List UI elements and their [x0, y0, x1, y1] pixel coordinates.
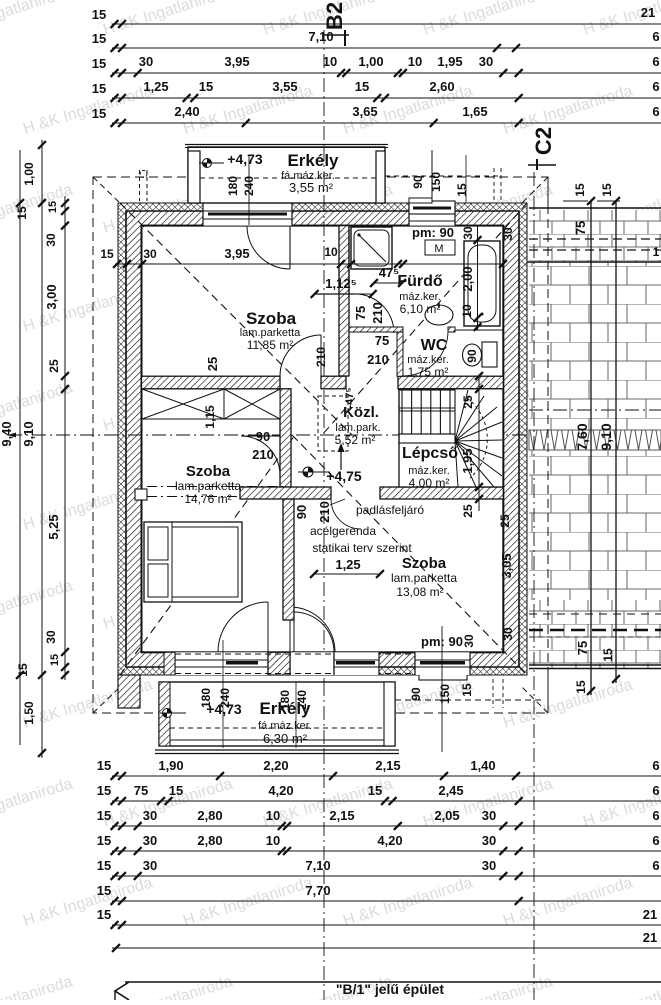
svg-text:pm: 90: pm: 90	[412, 225, 454, 240]
svg-text:10: 10	[266, 808, 280, 823]
svg-text:Szoba: Szoba	[246, 309, 297, 328]
svg-text:1,15: 1,15	[203, 405, 217, 429]
svg-text:6: 6	[652, 29, 659, 44]
svg-text:240: 240	[218, 688, 232, 708]
svg-text:6: 6	[652, 54, 659, 69]
brick vertical dim line 7,60	[590, 201, 592, 695]
svg-text:30: 30	[44, 233, 58, 247]
svg-text:25: 25	[205, 357, 220, 371]
section line C2 vertical dash-dot	[533, 172, 535, 1000]
bathtub	[464, 241, 500, 326]
svg-text:15: 15	[97, 808, 111, 823]
eaves corner stub TL	[93, 177, 120, 203]
svg-text:4,20: 4,20	[268, 783, 293, 798]
svg-text:2,15: 2,15	[375, 758, 400, 773]
WC left wall	[397, 332, 403, 376]
title block top line	[125, 981, 661, 983]
exterior wall insulation ring	[118, 203, 527, 675]
bottom row6	[515, 897, 523, 905]
svg-text:"B/1" jelű épület: "B/1" jelű épület	[336, 981, 445, 997]
roof hip TL dashed	[120, 203, 352, 435]
section line B2 vertical dash-dot	[323, 30, 325, 1000]
svg-text:5,25: 5,25	[46, 514, 61, 539]
small pier at window W3 left	[164, 652, 175, 675]
bottom wall window W4	[334, 652, 379, 675]
bottom dimension block	[112, 775, 661, 777]
svg-text:6,10 m²: 6,10 m²	[400, 302, 441, 316]
bottom balcony Erkély	[155, 682, 399, 754]
WC door arc	[403, 331, 448, 376]
svg-text:15: 15	[92, 7, 106, 22]
stairs Lépcső	[399, 389, 503, 487]
svg-text:75: 75	[375, 333, 389, 348]
bottom row2	[157, 797, 165, 805]
svg-text:210: 210	[370, 302, 385, 324]
wardrobe boxes	[142, 389, 280, 419]
ridge center line horizontal dash-dot	[8, 434, 527, 436]
door arc into Szoba 13,08 from balcony	[290, 607, 335, 652]
bottom wall door opening D1	[290, 652, 334, 675]
svg-text:90: 90	[294, 505, 309, 519]
svg-text:90: 90	[256, 429, 270, 444]
svg-text:15: 15	[92, 81, 106, 96]
svg-text:15: 15	[15, 206, 29, 220]
brick roof area	[529, 210, 661, 262]
svg-text:C2: C2	[531, 127, 556, 155]
svg-text:30: 30	[139, 54, 153, 69]
svg-text:10: 10	[460, 304, 474, 318]
svg-text:7,10: 7,10	[305, 858, 330, 873]
svg-text:4,20: 4,20	[377, 833, 402, 848]
wall H2 below Közl	[240, 487, 331, 499]
roof hip TR dashed	[322, 203, 527, 435]
top-left dashed pier	[139, 170, 141, 201]
top dimension block	[112, 23, 661, 25]
svg-text:statikai terv szerint: statikai terv szerint	[312, 541, 412, 555]
svg-text:Lépcső: Lépcső	[402, 445, 458, 462]
svg-text:21: 21	[641, 5, 655, 20]
svg-text:210: 210	[367, 352, 389, 367]
top dim row4	[183, 94, 191, 102]
svg-text:15: 15	[460, 683, 474, 697]
svg-text:30: 30	[143, 247, 157, 261]
svg-text:30: 30	[501, 627, 515, 641]
svg-text:3,95: 3,95	[224, 246, 249, 261]
svg-text:180: 180	[226, 176, 240, 196]
svg-text:25: 25	[47, 359, 61, 373]
svg-text:30: 30	[143, 808, 157, 823]
svg-text:25: 25	[498, 514, 512, 528]
bed	[144, 522, 242, 602]
svg-text:30: 30	[462, 634, 476, 648]
svg-text:9,10: 9,10	[21, 421, 36, 446]
interior wall V1 Szoba right	[339, 226, 349, 376]
steel beam acélgerenda	[135, 489, 147, 500]
svg-text:14,76 m²: 14,76 m²	[184, 492, 231, 506]
svg-text:7,60: 7,60	[574, 423, 590, 450]
door arc into Szoba 14,76	[218, 602, 268, 652]
window W1 door leaf and swing arc	[289, 226, 291, 269]
svg-text:30: 30	[479, 54, 493, 69]
svg-text:25: 25	[461, 504, 475, 518]
svg-text:180: 180	[278, 690, 292, 710]
eaves dashed rectangle	[93, 177, 548, 713]
svg-text:15: 15	[97, 883, 111, 898]
brick area boundary lines	[529, 207, 661, 209]
bottom wall pier between doors	[268, 652, 290, 675]
fürdő wall V2 right face line	[348, 226, 350, 294]
eaves dashed right edge over bricks	[547, 177, 549, 713]
svg-text:15: 15	[355, 79, 369, 94]
level marker Közl +4,75	[298, 467, 330, 477]
section line overlays across balconies	[323, 147, 325, 203]
left dim chain mid 9,10	[41, 140, 43, 758]
bottom row4	[134, 847, 142, 855]
svg-text:lam.parketta: lam.parketta	[391, 571, 457, 585]
eaves corner stub BR	[521, 686, 548, 713]
svg-text:6: 6	[652, 783, 659, 798]
svg-text:WC: WC	[421, 337, 448, 354]
WC toilet	[482, 342, 497, 367]
svg-text:7,10: 7,10	[308, 29, 333, 44]
svg-text:75: 75	[573, 221, 588, 235]
stair winders fan	[455, 390, 502, 487]
svg-text:1,75 m²: 1,75 m²	[408, 365, 449, 379]
svg-text:15: 15	[601, 648, 615, 662]
svg-text:21: 21	[643, 907, 657, 922]
svg-text:2,40: 2,40	[174, 104, 199, 119]
svg-text:6: 6	[652, 79, 659, 94]
svg-text:1,90: 1,90	[158, 758, 183, 773]
svg-text:15: 15	[169, 783, 183, 798]
svg-text:15: 15	[368, 783, 382, 798]
svg-text:6,30 m²: 6,30 m²	[263, 731, 308, 746]
level marker +4,73 bottom	[160, 709, 186, 718]
svg-text:2,45: 2,45	[438, 783, 463, 798]
svg-text:15: 15	[97, 833, 111, 848]
bottom wall window W3	[175, 652, 268, 675]
svg-text:2,15: 2,15	[329, 808, 354, 823]
svg-text:6: 6	[652, 808, 659, 823]
eaves corner stub TR	[521, 177, 548, 204]
level marker +4,73 top	[199, 159, 224, 168]
svg-text:30: 30	[501, 227, 515, 241]
svg-text:30: 30	[482, 858, 496, 873]
svg-text:13,08 m²: 13,08 m²	[396, 585, 443, 599]
svg-text:240: 240	[295, 690, 309, 710]
svg-text:10: 10	[323, 54, 337, 69]
svg-text:lam.parketta: lam.parketta	[175, 479, 241, 493]
brick area dashed bands	[529, 238, 661, 240]
top window dim lines and labels	[431, 150, 433, 203]
svg-text:Szoba: Szoba	[402, 555, 447, 572]
svg-text:15: 15	[92, 31, 106, 46]
svg-text:210: 210	[317, 501, 332, 523]
svg-text:21: 21	[643, 930, 657, 945]
top dim row5	[242, 119, 250, 127]
wall V4 between lower rooms	[283, 499, 294, 620]
svg-text:1,00: 1,00	[358, 54, 383, 69]
svg-text:30: 30	[44, 630, 58, 644]
svg-text:3,65: 3,65	[352, 104, 377, 119]
bottom row1	[216, 772, 224, 780]
svg-text:-47⁵: -47⁵	[344, 387, 356, 408]
svg-text:15: 15	[573, 183, 587, 197]
svg-text:M: M	[434, 243, 443, 255]
svg-text:3,55: 3,55	[272, 79, 297, 94]
svg-text:Erkély: Erkély	[287, 151, 339, 170]
svg-text:acélgerenda: acélgerenda	[310, 524, 376, 538]
svg-text:1,65: 1,65	[462, 104, 487, 119]
svg-text:15: 15	[97, 783, 111, 798]
svg-text:2,20: 2,20	[263, 758, 288, 773]
stairs dim 25/1,95/25	[478, 376, 480, 511]
svg-text:2,00: 2,00	[460, 266, 475, 291]
svg-text:15: 15	[100, 247, 114, 261]
svg-text:15: 15	[92, 56, 106, 71]
svg-text:Szoba: Szoba	[186, 463, 231, 480]
eaves corner stub BL	[93, 687, 120, 713]
svg-text:150: 150	[429, 172, 443, 192]
svg-text:90: 90	[411, 175, 425, 189]
svg-text:3,55 m²: 3,55 m²	[289, 180, 334, 195]
fürdő door arc	[355, 294, 394, 333]
svg-text:+4,75: +4,75	[326, 468, 362, 484]
brick ridge band	[529, 430, 661, 450]
svg-text:15: 15	[97, 907, 111, 922]
bottom wall window W5 pm90	[419, 669, 467, 680]
svg-text:150: 150	[438, 684, 452, 704]
svg-text:15: 15	[97, 758, 111, 773]
svg-text:210: 210	[252, 447, 274, 462]
brick vertical dim line 9,10	[615, 201, 617, 683]
top dim row3	[134, 69, 142, 77]
bottom leader bracket	[115, 982, 129, 1000]
szoba 13,08 dim 1,25	[314, 573, 380, 575]
svg-text:10: 10	[324, 245, 338, 259]
svg-text:1,50: 1,50	[22, 701, 36, 725]
door V3 arc	[241, 436, 280, 475]
svg-text:2,80: 2,80	[197, 808, 222, 823]
bottom-left wall stub	[118, 675, 140, 708]
svg-text:6: 6	[652, 833, 659, 848]
svg-text:15: 15	[574, 680, 588, 694]
svg-text:15: 15	[199, 79, 213, 94]
svg-text:1,40: 1,40	[470, 758, 495, 773]
szoba1 dim row	[115, 263, 503, 265]
svg-text:7,70: 7,70	[305, 883, 330, 898]
svg-text:90: 90	[409, 687, 423, 701]
door Szoba1 in H1	[280, 335, 321, 376]
top wall window W1	[203, 203, 292, 226]
svg-text:15: 15	[92, 106, 106, 121]
svg-text:2,60: 2,60	[429, 79, 454, 94]
svg-text:30: 30	[461, 226, 475, 240]
svg-text:10: 10	[408, 54, 422, 69]
svg-text:30: 30	[482, 833, 496, 848]
svg-text:1,95: 1,95	[437, 54, 462, 69]
door V4 arc	[294, 620, 334, 660]
wall V3 Közl left	[280, 389, 291, 487]
interior floor area	[142, 226, 504, 653]
svg-text:1,00: 1,00	[22, 162, 36, 186]
interior wall H1 band	[142, 376, 281, 389]
svg-text:6: 6	[652, 104, 659, 119]
svg-text:15: 15	[49, 654, 61, 666]
attic door arc in H2	[331, 499, 361, 529]
svg-text:25: 25	[461, 395, 475, 409]
svg-text:15: 15	[97, 858, 111, 873]
svg-text:+4,73: +4,73	[227, 151, 263, 167]
attic ladder arrow	[340, 447, 342, 470]
svg-text:75: 75	[134, 783, 148, 798]
dim 1,125	[315, 293, 373, 295]
svg-text:2,05: 2,05	[434, 808, 459, 823]
svg-text:15: 15	[600, 183, 614, 197]
svg-text:3,95: 3,95	[224, 54, 249, 69]
bottom row3	[134, 822, 142, 830]
exterior wall masonry ring	[126, 211, 519, 667]
fürdő WC divider wall	[349, 327, 403, 332]
svg-text:1: 1	[653, 245, 660, 259]
svg-text:11,85 m²: 11,85 m²	[247, 338, 293, 352]
svg-text:15: 15	[47, 201, 59, 213]
svg-text:3,00: 3,00	[44, 284, 59, 309]
attic hatch dashed rect	[318, 396, 348, 451]
svg-text:15: 15	[455, 183, 469, 197]
svg-text:4,00 m²: 4,00 m²	[409, 476, 450, 490]
svg-text:180: 180	[199, 688, 213, 708]
dashed lines across bottom openings	[175, 653, 470, 655]
svg-text:2,80: 2,80	[197, 833, 222, 848]
roof hip BL dashed	[120, 435, 295, 675]
svg-text:47⁵: 47⁵	[379, 265, 400, 280]
svg-text:15: 15	[16, 663, 30, 677]
svg-text:3,05: 3,05	[499, 553, 514, 578]
svg-text:210: 210	[314, 347, 328, 367]
svg-text:6: 6	[652, 758, 659, 773]
left dim chain outer 9,40	[19, 150, 21, 745]
svg-text:1,25: 1,25	[143, 79, 168, 94]
svg-text:1,25: 1,25	[335, 557, 360, 572]
svg-text:5,52 m²: 5,52 m²	[335, 433, 376, 447]
svg-text:30: 30	[482, 808, 496, 823]
svg-text:75: 75	[575, 641, 590, 655]
svg-text:10: 10	[266, 833, 280, 848]
dashed eaves line right of balcony	[395, 699, 545, 701]
svg-text:1,12⁵: 1,12⁵	[325, 276, 356, 291]
svg-text:90: 90	[465, 349, 479, 363]
svg-text:1,95: 1,95	[460, 448, 475, 473]
top wall window W2 pm90	[409, 203, 455, 226]
svg-text:6: 6	[652, 858, 659, 873]
svg-text:30: 30	[143, 833, 157, 848]
bathtub dim line	[477, 226, 479, 330]
top balcony Erkély	[185, 145, 388, 204]
bathroom sink	[425, 305, 453, 325]
bottom row5	[134, 872, 142, 880]
svg-text:B2: B2	[322, 2, 347, 30]
left dim chain inner detail	[64, 196, 66, 680]
svg-text:30: 30	[143, 858, 157, 873]
shower tray	[351, 227, 392, 269]
svg-text:9,10: 9,10	[598, 423, 614, 450]
svg-text:75: 75	[353, 306, 368, 320]
bottom dim projection lines	[222, 640, 224, 748]
roof hip BR dashed	[292, 435, 527, 675]
svg-text:padlásfeljáró: padlásfeljáró	[356, 503, 424, 517]
brick dash-dot line	[529, 409, 661, 411]
